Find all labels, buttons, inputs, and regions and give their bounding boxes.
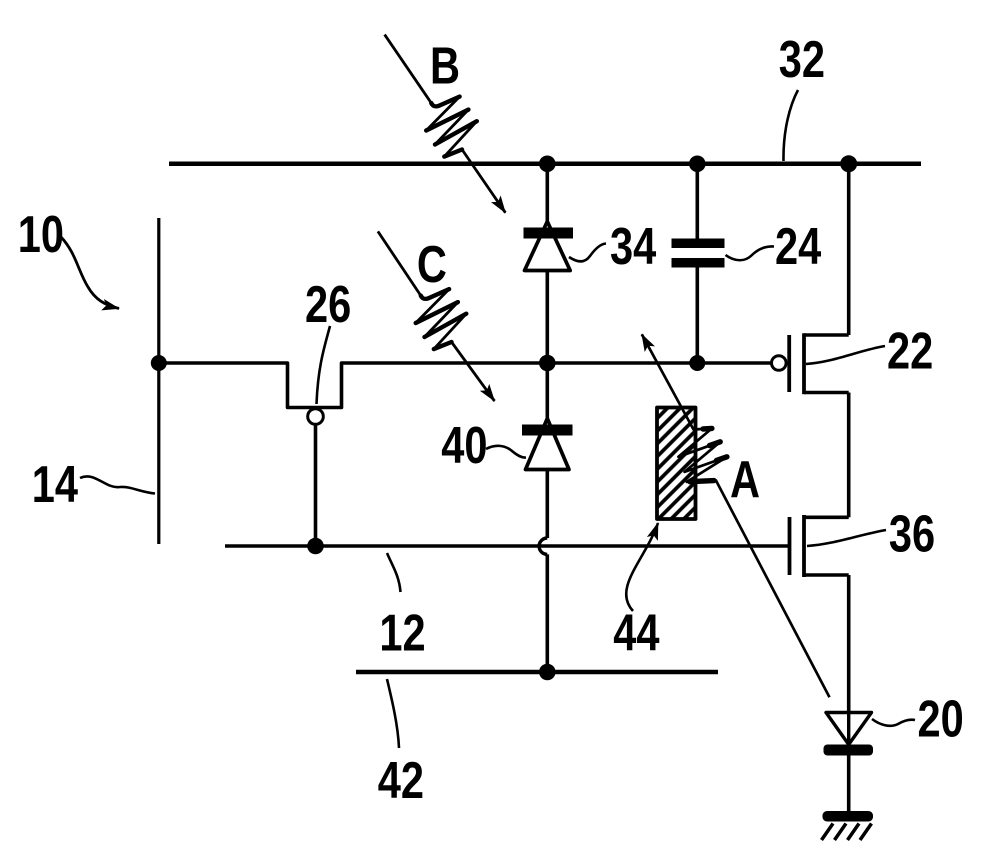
svg-text:36: 36 xyxy=(889,504,935,563)
svg-text:20: 20 xyxy=(918,689,964,748)
svg-text:40: 40 xyxy=(441,416,487,475)
svg-text:10: 10 xyxy=(18,205,64,264)
svg-text:26: 26 xyxy=(305,275,351,334)
svg-text:B: B xyxy=(430,36,460,95)
svg-text:A: A xyxy=(730,450,760,509)
svg-text:34: 34 xyxy=(610,217,656,276)
svg-text:32: 32 xyxy=(779,30,825,89)
svg-text:12: 12 xyxy=(379,603,425,662)
svg-text:24: 24 xyxy=(775,217,821,276)
svg-text:C: C xyxy=(417,234,447,293)
svg-text:42: 42 xyxy=(378,750,424,809)
svg-text:22: 22 xyxy=(887,321,933,380)
svg-text:14: 14 xyxy=(32,455,78,514)
svg-text:44: 44 xyxy=(613,603,659,662)
